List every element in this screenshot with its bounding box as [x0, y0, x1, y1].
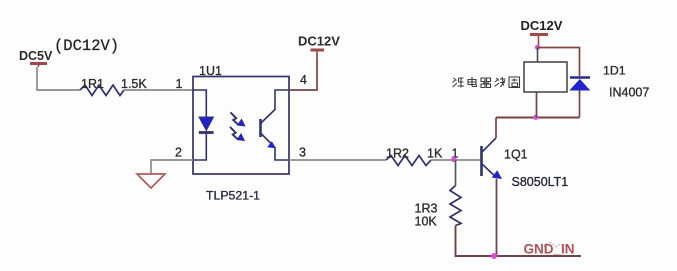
wire pin 3 to R2	[289, 159, 386, 161]
wire U1 internal cathode	[193, 134, 206, 161]
wire junction to diode branch	[538, 48, 580, 77]
wire pin 2 to ground	[151, 160, 193, 174]
wire DC12V down to top junction	[538, 36, 540, 48]
wire U1 internal collector to pin 4	[275, 90, 289, 110]
resistor 1R1	[80, 85, 124, 96]
svg-text:DC5V: DC5V	[19, 49, 53, 63]
svg-text:1D1: 1D1	[603, 64, 626, 78]
svg-text:DC12V: DC12V	[521, 18, 563, 33]
LED inside U1	[199, 117, 214, 133]
svg-text:1U1: 1U1	[199, 64, 222, 78]
power symbol DC12V (right)	[530, 33, 548, 36]
power symbol DC12V (middle)	[311, 50, 325, 54]
power symbol DC5V	[30, 64, 47, 68]
wire R3 to GND_IN rail	[456, 226, 582, 257]
junction top node	[535, 45, 540, 50]
phototransistor inside U1	[261, 110, 277, 149]
wire Q1 emitter down	[496, 179, 498, 256]
photon arrow 1	[231, 112, 246, 126]
junction emitter-rail	[491, 253, 497, 259]
transistor Q1	[482, 138, 503, 179]
wire node 1 to R3	[455, 160, 457, 186]
photon arrow 2	[230, 127, 245, 141]
svg-text:IN4007: IN4007	[609, 86, 649, 100]
junction node 1	[451, 157, 456, 162]
wire pin 4 to DC12V	[289, 54, 317, 90]
svg-text:1R3: 1R3	[415, 202, 438, 216]
svg-text:2: 2	[175, 146, 182, 160]
diode 1D1	[569, 78, 590, 91]
svg-text:1: 1	[176, 77, 183, 91]
wire U1 internal emitter to pin 3	[275, 147, 289, 160]
wire R1 to U1 pin 1	[124, 89, 193, 91]
wire DC5V to R1	[37, 67, 80, 90]
wire diode to collector net	[579, 91, 581, 118]
wire Q1 collector up	[495, 118, 497, 139]
svg-text:(DC12V): (DC12V)	[54, 37, 119, 55]
svg-text:1K: 1K	[427, 147, 443, 161]
junction relay bottom	[533, 115, 538, 120]
svg-text:1.5K: 1.5K	[121, 77, 147, 91]
svg-text:10K: 10K	[415, 215, 438, 229]
svg-text:4: 4	[300, 73, 307, 87]
label relay coil (Chinese 继电器线圈)	[453, 77, 520, 88]
wire U1 internal anode	[193, 90, 206, 117]
svg-text:DC12V: DC12V	[298, 34, 340, 49]
relay coil box	[524, 62, 567, 92]
svg-text:S8050LT1: S8050LT1	[512, 175, 569, 189]
optocoupler U1 body	[193, 77, 289, 175]
wire relay coil bottom	[536, 92, 538, 118]
resistor 1R3	[450, 186, 461, 226]
svg-text:1Q1: 1Q1	[504, 148, 528, 162]
watermark	[544, 243, 567, 250]
svg-text:TLP521-1: TLP521-1	[206, 189, 260, 203]
wire junction to relay top	[537, 48, 539, 63]
svg-text:GND_IN: GND_IN	[524, 242, 575, 257]
svg-text:3: 3	[299, 146, 306, 160]
wire R2 to node 1	[431, 159, 481, 161]
svg-text:1R2: 1R2	[386, 147, 409, 161]
ground	[137, 174, 165, 188]
wire collector net horizontal	[496, 117, 580, 119]
svg-text:1R1: 1R1	[81, 77, 104, 91]
resistor 1R2	[386, 156, 431, 166]
